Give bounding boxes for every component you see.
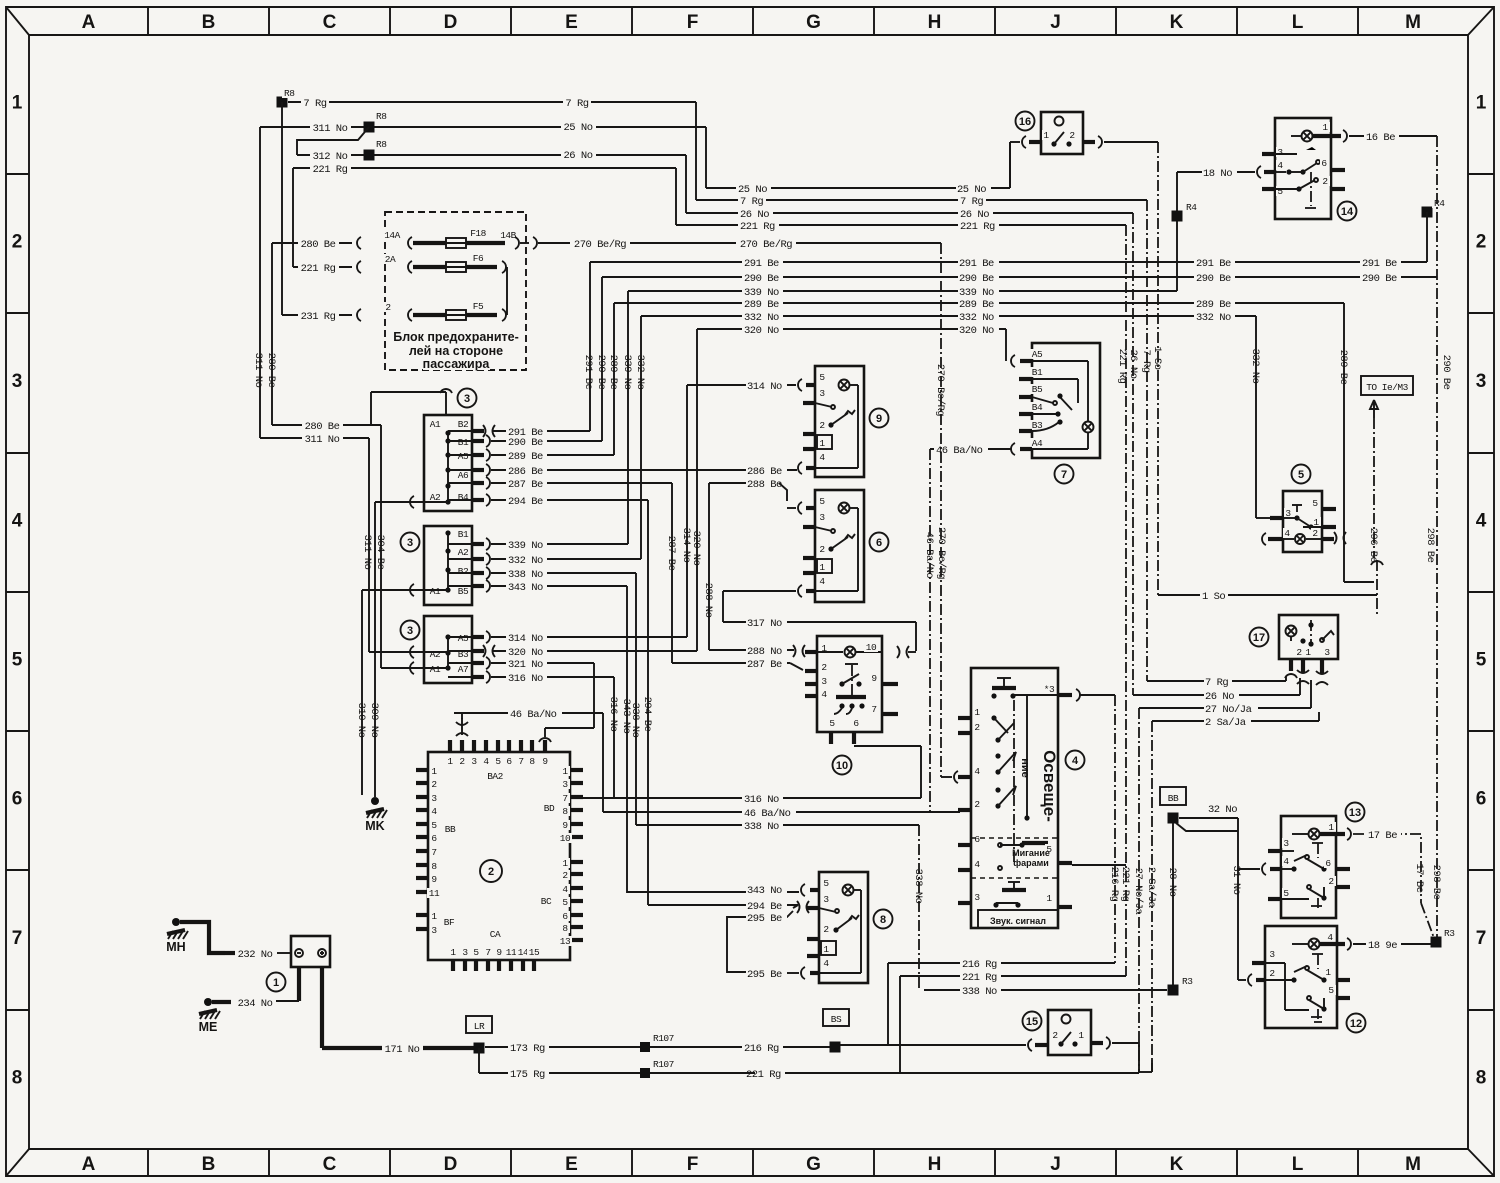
svg-text:E: E — [565, 12, 578, 33]
svg-text:16: 16 — [1019, 116, 1031, 128]
svg-text:B5: B5 — [458, 586, 469, 597]
svg-text:1: 1 — [1305, 647, 1311, 658]
svg-text:2: 2 — [385, 302, 391, 313]
wire 316 No riser — [607, 677, 619, 798]
svg-text:B2: B2 — [458, 566, 469, 577]
lighting switch 4 — [958, 668, 1080, 928]
ground MK — [365, 797, 387, 833]
svg-text:311 No: 311 No — [361, 535, 373, 570]
svg-text:46 Ba/No: 46 Ba/No — [744, 808, 791, 820]
svg-text:320 No: 320 No — [959, 325, 994, 337]
connector 3 C outputs — [448, 631, 697, 685]
wire 221 Rg bottom run — [744, 1042, 1152, 1081]
svg-text:10: 10 — [560, 833, 571, 844]
svg-text:M: M — [1405, 12, 1421, 33]
svg-text:316 No: 316 No — [607, 697, 619, 732]
svg-text:234 No: 234 No — [238, 998, 273, 1010]
svg-text:1: 1 — [450, 947, 456, 958]
svg-text:291 Be: 291 Be — [959, 258, 994, 270]
svg-text:298 Be: 298 Be — [1430, 865, 1442, 900]
svg-text:314 No: 314 No — [508, 633, 543, 645]
svg-text:312 No: 312 No — [313, 151, 348, 163]
svg-text:332 No: 332 No — [959, 312, 994, 324]
svg-text:338 No: 338 No — [744, 821, 779, 833]
svg-text:9: 9 — [431, 874, 437, 885]
svg-text:288 Be: 288 Be — [747, 479, 782, 491]
svg-text:289 Be: 289 Be — [508, 451, 543, 463]
svg-text:7: 7 — [485, 947, 490, 958]
svg-text:2: 2 — [1322, 176, 1328, 187]
svg-text:289 Be: 289 Be — [744, 299, 779, 311]
svg-text:7: 7 — [518, 756, 523, 767]
fuse F5 output link — [474, 309, 506, 321]
svg-text:291 Be: 291 Be — [744, 258, 779, 270]
svg-text:290 Be: 290 Be — [1362, 273, 1397, 285]
svg-text:BB: BB — [445, 824, 456, 835]
svg-text:5: 5 — [473, 947, 479, 958]
svg-text:2: 2 — [12, 232, 23, 253]
switch 6 — [803, 490, 864, 602]
svg-text:5: 5 — [1277, 186, 1283, 197]
ground ME — [199, 998, 231, 1034]
svg-text:339 No: 339 No — [959, 287, 994, 299]
svg-text:J: J — [1050, 1154, 1061, 1175]
svg-text:216 Rg: 216 Rg — [744, 1043, 779, 1055]
wire 234 No — [235, 997, 299, 1010]
svg-text:4: 4 — [483, 756, 489, 767]
svg-text:27 No/Ja: 27 No/Ja — [1132, 868, 1144, 915]
svg-text:B: B — [202, 1154, 216, 1175]
svg-text:R107: R107 — [653, 1059, 674, 1070]
svg-text:175 Rg: 175 Rg — [510, 1069, 545, 1081]
wire 7 Rg row2 — [696, 195, 1147, 208]
svg-text:7: 7 — [12, 928, 23, 949]
label circled 9 — [870, 409, 889, 428]
wire 18 No — [1177, 166, 1261, 291]
svg-text:3: 3 — [12, 371, 23, 392]
svg-text:A5: A5 — [458, 633, 469, 644]
svg-text:2: 2 — [562, 870, 568, 881]
wire 17 Be — [1353, 829, 1434, 938]
label circled 17 — [1250, 628, 1269, 647]
wire 317 No — [723, 585, 916, 651]
wire 289 Be right vertical — [1337, 303, 1379, 582]
svg-text:295 Be: 295 Be — [747, 969, 782, 981]
svg-text:Звук. сигнал: Звук. сигнал — [990, 916, 1046, 926]
svg-text:3: 3 — [464, 393, 470, 405]
svg-text:6: 6 — [1325, 858, 1331, 869]
svg-text:10: 10 — [866, 642, 877, 653]
svg-text:287 Be: 287 Be — [747, 659, 782, 671]
svg-text:7: 7 — [1476, 928, 1487, 949]
svg-text:1: 1 — [1476, 93, 1487, 114]
connector 3 A outputs — [448, 425, 797, 508]
wire 26 No — [686, 208, 1133, 221]
svg-text:*3: *3 — [1044, 684, 1055, 695]
svg-text:288 No: 288 No — [747, 646, 782, 658]
svg-text:46 Ba/No: 46 Ba/No — [510, 709, 557, 721]
wire 316 No row — [583, 746, 921, 806]
wire 314 No riser — [680, 379, 802, 637]
svg-text:309 No: 309 No — [368, 703, 380, 738]
wire 32 No — [1176, 803, 1241, 831]
switch 13 — [1268, 816, 1351, 918]
svg-text:L: L — [1292, 1154, 1304, 1175]
svg-text:13: 13 — [560, 936, 571, 947]
svg-text:298 Be: 298 Be — [1424, 528, 1436, 563]
label circled 6 — [870, 533, 889, 552]
svg-text:13: 13 — [1349, 807, 1361, 819]
svg-text:320 No: 320 No — [744, 325, 779, 337]
svg-text:G: G — [806, 12, 821, 33]
svg-text:280 Be: 280 Be — [265, 353, 277, 388]
svg-text:A: A — [82, 12, 96, 33]
svg-text:5: 5 — [819, 372, 825, 383]
fuse box label — [391, 330, 522, 371]
wire 339 No — [621, 286, 1177, 544]
svg-text:A6: A6 — [458, 470, 469, 481]
svg-text:14A: 14A — [384, 230, 400, 241]
svg-text:2: 2 — [1328, 876, 1334, 887]
svg-text:R8: R8 — [284, 88, 295, 99]
svg-text:1: 1 — [562, 858, 568, 869]
svg-text:291 Be: 291 Be — [582, 355, 594, 390]
svg-text:314 No: 314 No — [747, 381, 782, 393]
svg-text:171 No: 171 No — [385, 1044, 420, 1056]
svg-text:R3: R3 — [1444, 928, 1455, 939]
svg-text:4: 4 — [819, 576, 825, 587]
svg-text:6: 6 — [974, 834, 980, 845]
wire 216 Rg vertical — [888, 695, 1120, 1045]
svg-text:7 Rg: 7 Rg — [740, 196, 763, 208]
wire 317 No hook 10 — [897, 646, 909, 658]
svg-text:M: M — [1405, 1154, 1421, 1175]
svg-text:3: 3 — [1277, 147, 1283, 158]
svg-text:26 No: 26 No — [960, 209, 989, 221]
svg-text:339 No: 339 No — [621, 355, 633, 390]
svg-text:2: 2 — [431, 779, 437, 790]
svg-text:288 No: 288 No — [702, 583, 714, 618]
svg-text:C: C — [323, 1154, 337, 1175]
fuse box dashed outline — [385, 212, 526, 370]
wire 332 No right vertical — [1249, 316, 1270, 518]
svg-text:3: 3 — [1283, 838, 1289, 849]
svg-text:B1: B1 — [458, 437, 469, 448]
svg-text:316 No: 316 No — [508, 673, 543, 685]
svg-text:221 Rg: 221 Rg — [740, 221, 775, 233]
link LR — [466, 1016, 492, 1033]
svg-text:11: 11 — [429, 888, 440, 899]
wire 311 No left vertical — [252, 127, 264, 438]
wire 311 No / 25 No — [260, 121, 706, 188]
svg-text:25 No: 25 No — [957, 184, 986, 196]
svg-text:A1: A1 — [430, 586, 441, 597]
svg-text:CA: CA — [490, 929, 501, 940]
wire 216 Rg to BS — [650, 1042, 830, 1055]
svg-text:1: 1 — [447, 756, 453, 767]
wire 46 Ba/No — [454, 443, 1015, 820]
wire 288 No horizontal — [709, 645, 805, 658]
svg-text:46 Ba/No: 46 Ba/No — [923, 532, 935, 579]
svg-text:216 Rg: 216 Rg — [962, 959, 997, 971]
wire 290/298 Be right vertical — [1424, 136, 1452, 942]
svg-text:5: 5 — [1476, 650, 1487, 671]
fuse F6 output link — [474, 261, 507, 315]
svg-text:5: 5 — [12, 650, 23, 671]
wire 312 No / 26 No — [297, 127, 686, 213]
svg-text:BF: BF — [444, 917, 455, 928]
svg-text:A4: A4 — [1032, 438, 1043, 449]
wire 270 Be/Rg vertical — [934, 243, 958, 783]
svg-text:L: L — [1292, 12, 1304, 33]
svg-text:3: 3 — [562, 779, 568, 790]
svg-text:E: E — [565, 1154, 578, 1175]
svg-text:1: 1 — [273, 977, 279, 989]
svg-text:289 Be: 289 Be — [607, 355, 619, 390]
svg-text:343 No: 343 No — [747, 885, 782, 897]
svg-text:5: 5 — [1283, 888, 1289, 899]
switch 9 — [803, 366, 864, 477]
wire 286 Be hook 9 — [798, 462, 802, 474]
wire 280 Be left vertical — [265, 243, 277, 425]
junction square BB — [1168, 813, 1179, 824]
wire 221 Rg top — [293, 163, 676, 267]
wire 309 No to MK — [368, 502, 408, 797]
svg-text:289 Be: 289 Be — [1337, 350, 1349, 385]
svg-text:A: A — [82, 1154, 96, 1175]
svg-text:2: 2 — [1312, 528, 1318, 539]
junction R8 on wire 312 No — [364, 139, 389, 161]
wire 287 Be riser — [665, 483, 803, 671]
svg-text:16 Be: 16 Be — [1366, 132, 1395, 144]
svg-text:4: 4 — [562, 884, 568, 895]
svg-text:BC: BC — [541, 896, 552, 907]
svg-text:8: 8 — [12, 1068, 23, 1089]
svg-text:270 Be/Rg: 270 Be/Rg — [574, 239, 626, 251]
label Освещение — [1019, 750, 1059, 822]
wire 231 Rg feed from R8 — [281, 102, 283, 315]
svg-text:3: 3 — [1324, 647, 1330, 658]
link BS — [823, 1009, 849, 1026]
svg-text:6: 6 — [431, 833, 437, 844]
fuse F18 — [438, 228, 488, 248]
wire 7 Rg vertical — [1140, 200, 1286, 689]
svg-text:310 No: 310 No — [355, 703, 367, 738]
svg-text:ние: ние — [1019, 758, 1031, 778]
svg-text:F18: F18 — [470, 228, 486, 239]
wire 280 Be row3 — [272, 420, 386, 668]
wire 16 Be — [1349, 131, 1437, 144]
label circled 1 — [267, 973, 286, 992]
svg-text:ME: ME — [199, 1020, 218, 1034]
svg-text:338 No: 338 No — [912, 869, 924, 904]
svg-text:270 Be/Rg: 270 Be/Rg — [934, 364, 946, 416]
svg-text:12: 12 — [1350, 1018, 1362, 1030]
svg-text:2: 2 — [974, 722, 980, 733]
wire 320 No — [690, 324, 1006, 651]
svg-text:F5: F5 — [473, 301, 484, 312]
svg-text:28 No: 28 No — [1166, 867, 1178, 896]
connector 3 box A — [375, 389, 472, 511]
switch 10 — [805, 636, 898, 744]
wire 291 Be — [582, 257, 1427, 431]
svg-text:1: 1 — [823, 944, 829, 955]
svg-text:7: 7 — [1061, 469, 1067, 481]
wire 28 No vertical — [1166, 823, 1178, 985]
svg-text:8: 8 — [1476, 1068, 1487, 1089]
svg-text:332 No: 332 No — [634, 355, 646, 390]
link TO Ie/M3 — [1361, 376, 1413, 558]
svg-text:27 No/Ja: 27 No/Ja — [1205, 704, 1252, 716]
label circled 10 — [833, 756, 852, 775]
svg-text:F: F — [687, 12, 699, 33]
svg-text:3: 3 — [819, 388, 825, 399]
svg-text:2: 2 — [819, 420, 825, 431]
label circled 3 C — [401, 621, 420, 640]
svg-text:Блок предохраните-: Блок предохраните- — [393, 330, 519, 344]
svg-text:3: 3 — [407, 625, 413, 637]
svg-text:311 No: 311 No — [252, 353, 264, 388]
svg-text:2: 2 — [819, 544, 825, 555]
wire BS to switch 15 — [840, 1044, 1026, 1046]
wire 280 Be fuse row — [272, 230, 438, 251]
svg-text:A1: A1 — [430, 664, 441, 675]
switch 16 — [1010, 112, 1158, 188]
svg-text:BD: BD — [544, 803, 555, 814]
svg-text:320 No: 320 No — [508, 647, 543, 659]
svg-text:9: 9 — [562, 820, 568, 831]
svg-text:1: 1 — [1322, 122, 1328, 133]
wire 231 Rg fuse row — [282, 302, 438, 323]
svg-text:270 Be/Rg: 270 Be/Rg — [740, 239, 792, 251]
svg-text:14B: 14B — [500, 230, 516, 241]
wire 311 No row3 — [260, 433, 373, 652]
svg-text:232 No: 232 No — [238, 949, 273, 961]
svg-text:LR: LR — [474, 1021, 485, 1032]
label circled 15 — [1023, 1012, 1042, 1031]
svg-text:6: 6 — [12, 789, 23, 810]
svg-text:F: F — [687, 1154, 699, 1175]
svg-text:K: K — [1170, 1154, 1184, 1175]
svg-text:10: 10 — [836, 760, 848, 772]
svg-text:J: J — [1050, 12, 1061, 33]
svg-text:B2: B2 — [458, 419, 469, 430]
svg-text:290 Be: 290 Be — [508, 437, 543, 449]
label circled 8 — [874, 910, 893, 929]
svg-text:2: 2 — [823, 924, 829, 935]
svg-text:8: 8 — [562, 806, 568, 817]
svg-text:лей на стороне: лей на стороне — [409, 344, 503, 358]
svg-text:A7: A7 — [458, 664, 468, 675]
svg-text:321 No: 321 No — [508, 659, 543, 671]
svg-text:338 No: 338 No — [962, 986, 997, 998]
wire 295 Be loop — [727, 911, 805, 981]
label circled 14 — [1338, 202, 1357, 221]
svg-text:291 Be: 291 Be — [1362, 258, 1397, 270]
svg-text:26 No: 26 No — [740, 209, 769, 221]
svg-text:11: 11 — [506, 947, 517, 958]
svg-text:5: 5 — [431, 820, 437, 831]
svg-text:9: 9 — [876, 413, 882, 425]
svg-text:286 Be: 286 Be — [747, 466, 782, 478]
svg-text:1: 1 — [1328, 822, 1334, 833]
svg-text:6: 6 — [876, 537, 882, 549]
svg-text:D: D — [444, 1154, 458, 1175]
svg-text:332 No: 332 No — [1249, 349, 1261, 384]
svg-text:3: 3 — [407, 537, 413, 549]
svg-text:H: H — [928, 1154, 942, 1175]
junction R107 a — [640, 1033, 678, 1052]
svg-text:7: 7 — [562, 793, 567, 804]
svg-text:B1: B1 — [458, 529, 469, 540]
svg-text:5: 5 — [562, 897, 568, 908]
svg-text:2: 2 — [974, 799, 980, 810]
wire 270 Be/Rg from F18 — [474, 230, 941, 251]
svg-text:MH: MH — [166, 940, 185, 954]
svg-text:A5: A5 — [1032, 349, 1043, 360]
svg-text:5: 5 — [1328, 985, 1334, 996]
svg-text:286 Be: 286 Be — [508, 466, 543, 478]
junction square LR — [474, 1043, 485, 1054]
central unit 2 — [416, 718, 583, 971]
svg-text:9: 9 — [871, 673, 877, 684]
svg-text:MK: MK — [365, 819, 384, 833]
svg-text:2: 2 — [1296, 647, 1302, 658]
svg-text:221 Rg: 221 Rg — [1119, 867, 1131, 902]
svg-text:339 No: 339 No — [508, 540, 543, 552]
svg-text:3: 3 — [1269, 949, 1275, 960]
svg-text:4: 4 — [12, 511, 23, 532]
link BB — [1160, 787, 1186, 805]
svg-text:3: 3 — [821, 676, 827, 687]
svg-text:338 No: 338 No — [629, 703, 641, 738]
svg-text:3: 3 — [431, 925, 437, 936]
svg-text:R8: R8 — [376, 111, 387, 122]
svg-text:8: 8 — [562, 923, 568, 934]
svg-text:7 Rg: 7 Rg — [1205, 677, 1228, 689]
svg-text:290 Be: 290 Be — [744, 273, 779, 285]
svg-text:7 Rg: 7 Rg — [565, 98, 588, 110]
svg-text:7 Rg: 7 Rg — [1140, 349, 1152, 372]
svg-text:R107: R107 — [653, 1033, 674, 1044]
svg-text:1: 1 — [974, 707, 980, 718]
svg-text:18 No: 18 No — [1203, 168, 1232, 180]
label circled 4 — [1066, 751, 1085, 770]
wire 294 Be riser — [641, 500, 809, 913]
svg-text:4: 4 — [1277, 160, 1283, 171]
svg-text:BS: BS — [831, 1014, 842, 1025]
svg-text:BA2: BA2 — [487, 771, 503, 782]
svg-text:4: 4 — [1476, 511, 1487, 532]
junction R3 M7 — [1431, 928, 1457, 948]
svg-text:BB: BB — [1168, 793, 1179, 804]
svg-text:A1: A1 — [430, 419, 441, 430]
svg-text:6: 6 — [853, 718, 859, 729]
svg-text:4: 4 — [821, 689, 827, 700]
svg-text:231 Rg: 231 Rg — [301, 311, 336, 323]
svg-text:343 No: 343 No — [508, 582, 543, 594]
wire 332 No — [634, 311, 1256, 559]
label circled 3 A — [458, 389, 477, 408]
svg-text:8: 8 — [880, 914, 886, 926]
switch 12 — [1252, 926, 1351, 1028]
svg-text:296 Be: 296 Be — [1367, 528, 1379, 563]
svg-text:фарами: фарами — [1013, 858, 1049, 868]
svg-text:C: C — [323, 12, 337, 33]
svg-text:3: 3 — [974, 892, 980, 903]
wire 31 No vertical — [1230, 818, 1266, 986]
svg-text:R4: R4 — [1434, 198, 1445, 209]
